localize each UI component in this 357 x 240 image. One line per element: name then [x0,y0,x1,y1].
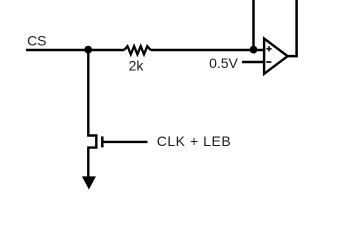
wire: CS input to resistor [26,49,124,51]
pin - (inverting input mark) [266,61,271,63]
resistor R 2k [124,46,150,54]
wire: junction up from + input (off top edge) [252,0,255,50]
svg-text:2k: 2k [129,58,145,74]
wire: comparator output, right then up (off top edge) [287,0,297,56]
wire: resistor to comparator + input [151,49,265,51]
svg-text:0.5V: 0.5V [209,55,238,71]
current-sink arrow to ground [82,176,96,189]
svg-text:CLK + LEB: CLK + LEB [157,133,232,149]
transistor Q1 (NMOS, simplified) channel/source path [88,134,96,177]
wire: 0.5V to comparator - input [242,61,265,63]
transistor Q1 gate bar [101,136,104,147]
wire: gate to CLK + LEB [103,141,147,143]
op-amp U1 (comparator) triangle [264,39,288,74]
node junction dot at comparator + input [250,46,258,54]
pin + (non-inverting input mark) [266,46,271,51]
svg-text:CS: CS [27,32,46,48]
wire: junction down to transistor drain [87,50,89,136]
node junction dot at CS / transistor drain [84,46,92,54]
